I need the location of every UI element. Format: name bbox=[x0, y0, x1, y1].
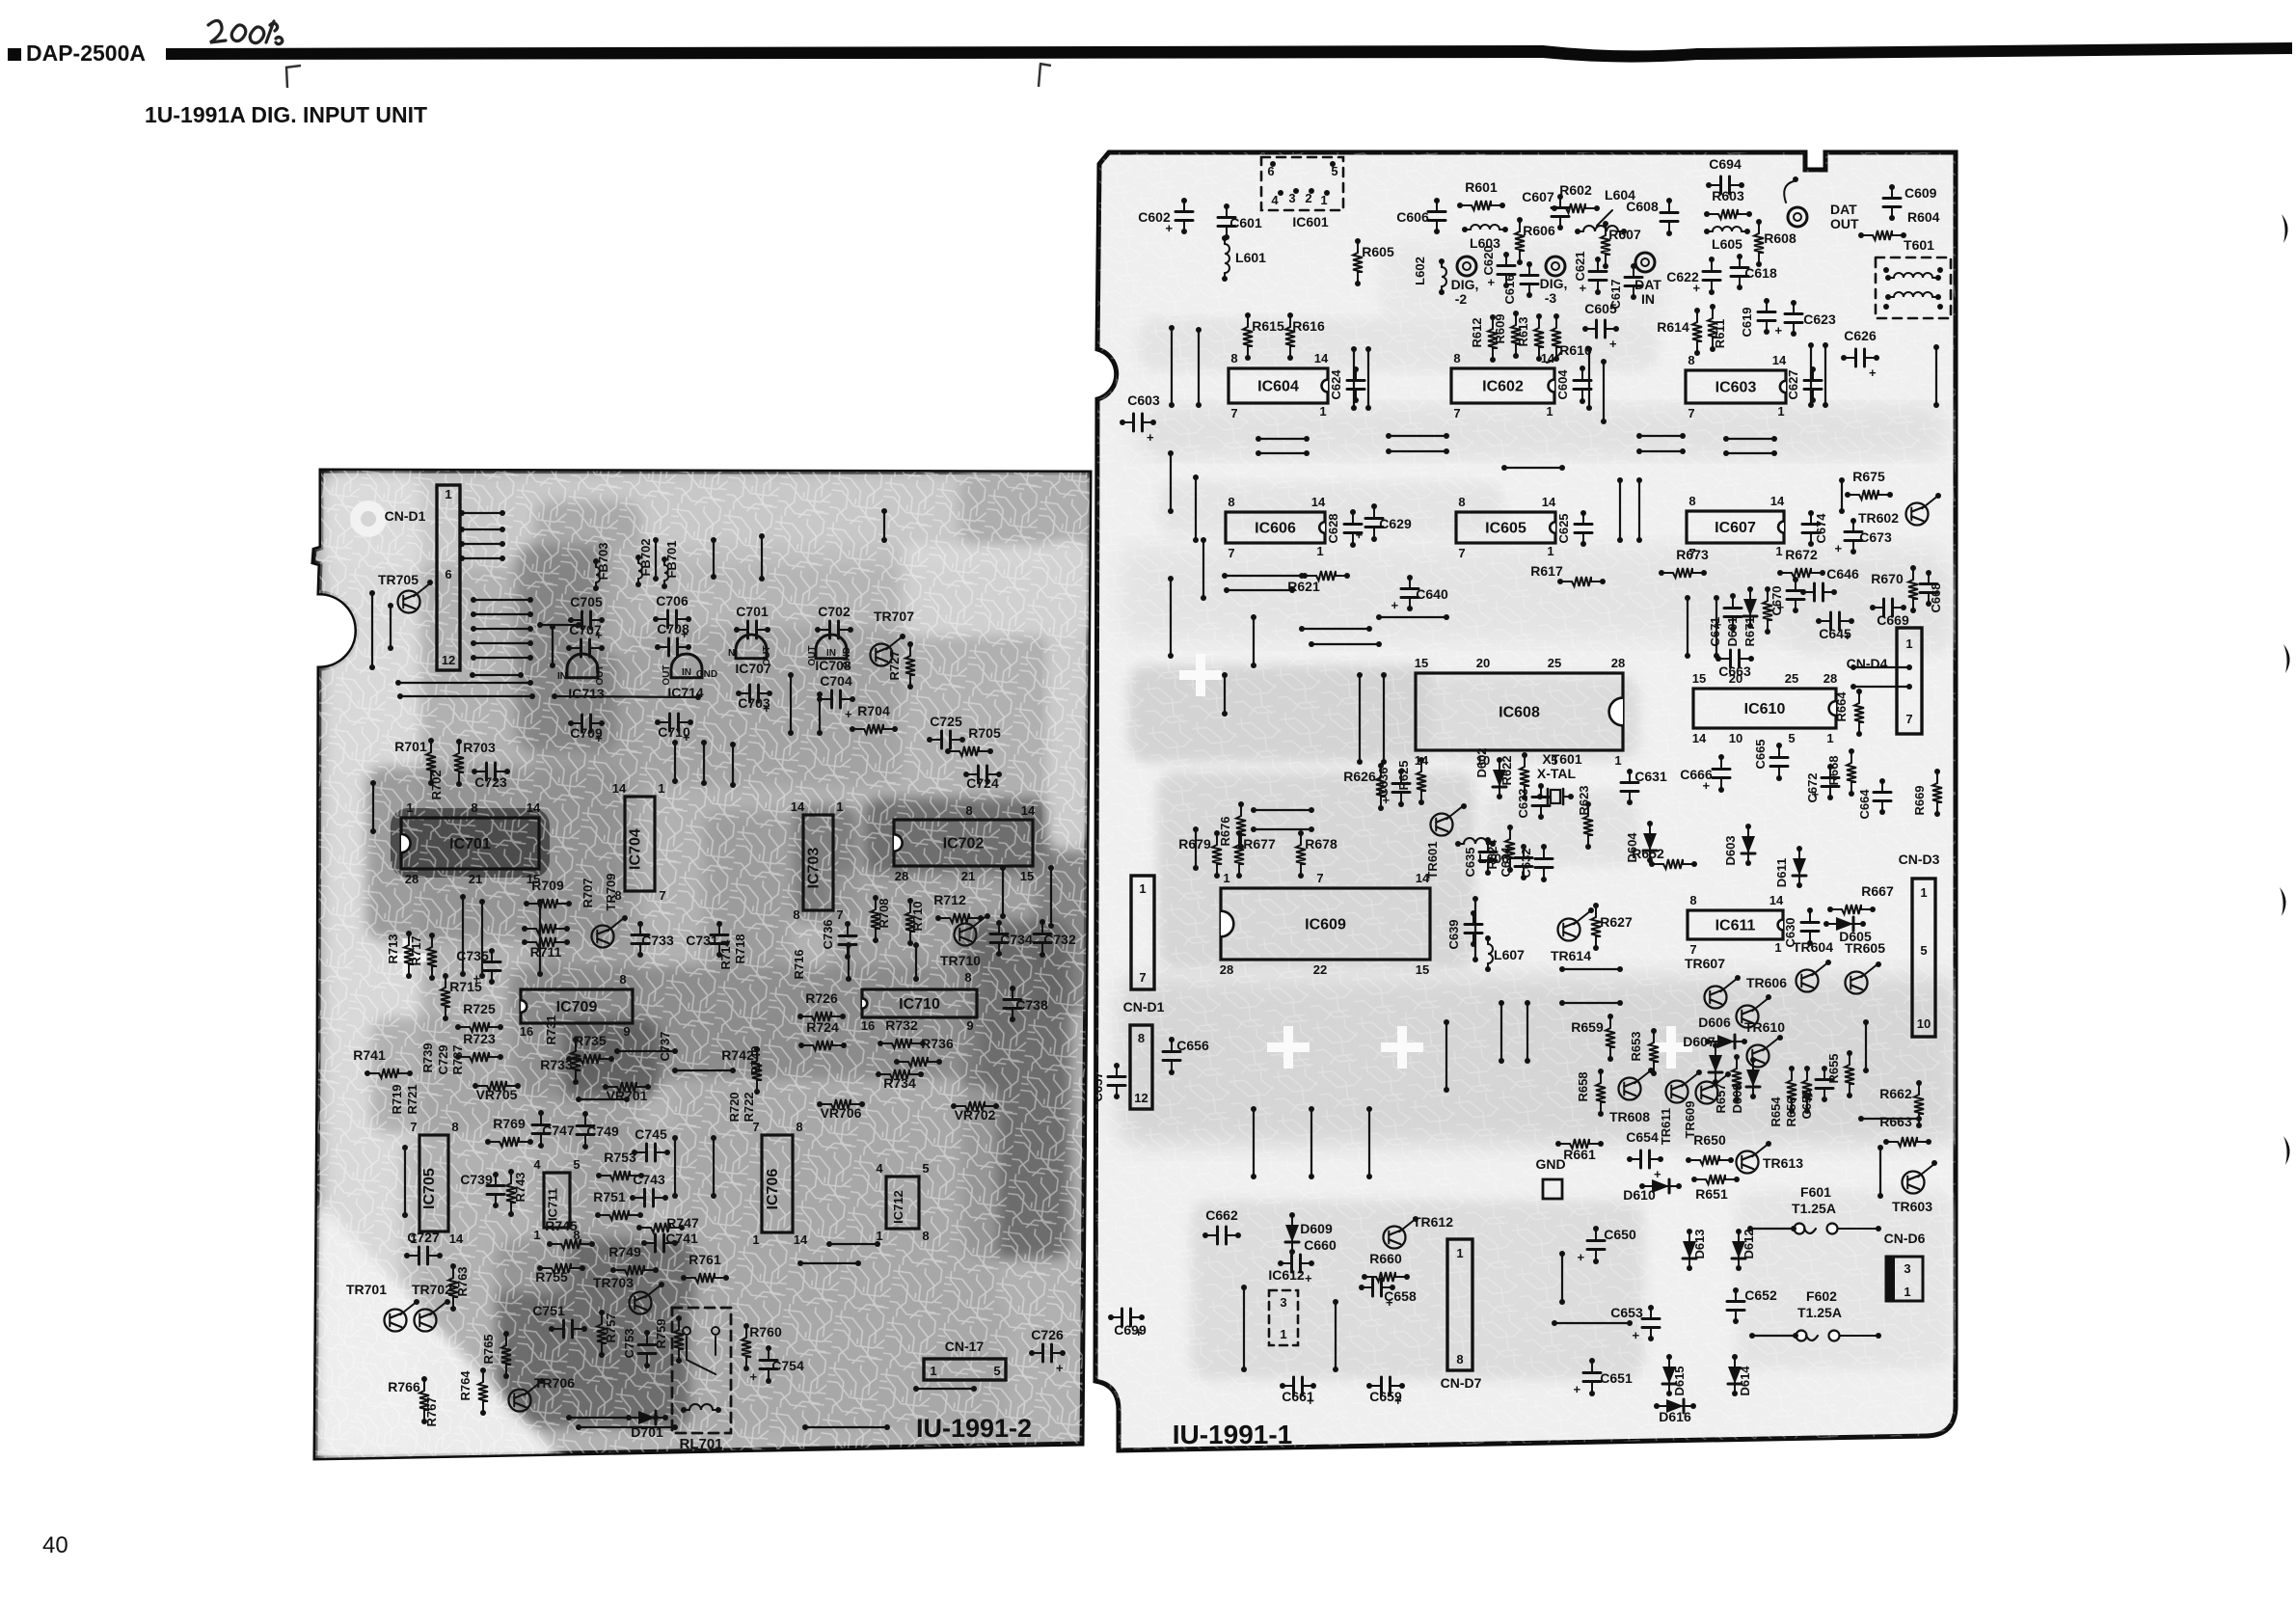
svg-text:+: + bbox=[1386, 1295, 1393, 1310]
svg-text:R709: R709 bbox=[531, 878, 564, 893]
IC IC709 bbox=[521, 989, 633, 1023]
svg-text:14: 14 bbox=[1542, 495, 1556, 509]
svg-text:R656: R656 bbox=[1784, 1096, 1798, 1126]
svg-text:TR605: TR605 bbox=[1845, 940, 1885, 956]
svg-text:40: 40 bbox=[42, 1532, 68, 1558]
wire bbox=[1169, 325, 1175, 408]
svg-text:1: 1 bbox=[1777, 404, 1784, 419]
svg-text:R703: R703 bbox=[463, 740, 496, 755]
handwritten 200% annotation bbox=[208, 20, 283, 43]
svg-text:+: + bbox=[1388, 602, 1402, 609]
wire bbox=[1351, 346, 1357, 411]
svg-text:R622: R622 bbox=[1499, 755, 1514, 785]
svg-text:C736: C736 bbox=[821, 919, 835, 949]
svg-text:IC604: IC604 bbox=[1257, 379, 1299, 395]
IC IC605 bbox=[1456, 512, 1555, 543]
svg-text:R725: R725 bbox=[463, 1001, 496, 1016]
svg-text:C606: C606 bbox=[1396, 209, 1429, 225]
svg-text:D603: D603 bbox=[1723, 835, 1738, 865]
svg-text:+: + bbox=[1711, 621, 1725, 629]
svg-text:R726: R726 bbox=[805, 990, 838, 1006]
wire bbox=[1381, 672, 1387, 765]
bus wire B bbox=[397, 693, 535, 699]
svg-text:IC713: IC713 bbox=[568, 686, 605, 701]
wire bbox=[1636, 448, 1686, 454]
svg-text:VR705: VR705 bbox=[476, 1087, 518, 1102]
svg-text:CN-17: CN-17 bbox=[945, 1339, 985, 1354]
svg-text:+: + bbox=[845, 707, 852, 721]
wire bbox=[1366, 1106, 1372, 1179]
svg-text:9: 9 bbox=[623, 1024, 630, 1039]
wire bbox=[537, 622, 581, 628]
svg-text:+: + bbox=[1147, 430, 1154, 445]
IC IC705 bbox=[419, 1135, 448, 1232]
svg-text:C646: C646 bbox=[1826, 566, 1859, 582]
svg-text:TR610: TR610 bbox=[1744, 1019, 1785, 1035]
svg-text:8: 8 bbox=[1456, 1352, 1463, 1367]
svg-text:+: + bbox=[1379, 797, 1393, 804]
wire bbox=[1251, 807, 1314, 813]
wire bbox=[1299, 626, 1372, 632]
wire bbox=[1617, 477, 1623, 543]
svg-text:1: 1 bbox=[1547, 544, 1553, 558]
svg-text:15: 15 bbox=[1415, 656, 1428, 670]
binding mark 3 bbox=[2280, 887, 2286, 916]
wire bbox=[479, 899, 485, 979]
svg-text:14: 14 bbox=[1021, 803, 1036, 818]
svg-text:OUT: OUT bbox=[1830, 216, 1859, 231]
wire bbox=[913, 1386, 977, 1392]
svg-text:R737: R737 bbox=[450, 1044, 465, 1074]
svg-text:R701: R701 bbox=[394, 739, 427, 754]
wire bbox=[576, 1096, 630, 1102]
regulator IC714 bbox=[671, 654, 702, 678]
svg-text:IC611: IC611 bbox=[1715, 918, 1756, 934]
wire bbox=[614, 1048, 678, 1054]
svg-text:OUT: OUT bbox=[807, 645, 818, 665]
svg-text:+: + bbox=[1689, 284, 1704, 292]
svg-text:+: + bbox=[1305, 1271, 1312, 1286]
svg-text:DIG,: DIG, bbox=[1451, 277, 1479, 292]
svg-text:9: 9 bbox=[966, 1018, 973, 1033]
svg-text:R653: R653 bbox=[1629, 1031, 1643, 1061]
svg-text:R603: R603 bbox=[1712, 188, 1744, 203]
svg-text:C654: C654 bbox=[1626, 1129, 1659, 1145]
svg-text:R650: R650 bbox=[1693, 1132, 1726, 1148]
svg-text:R727: R727 bbox=[887, 650, 902, 680]
svg-text:C627: C627 bbox=[1786, 369, 1800, 399]
wire bbox=[797, 1260, 861, 1266]
svg-text:+: + bbox=[1394, 1394, 1402, 1408]
svg-text:1: 1 bbox=[1319, 404, 1326, 419]
svg-text:C726: C726 bbox=[1031, 1327, 1064, 1342]
wire bbox=[1193, 474, 1199, 543]
svg-text:+: + bbox=[1574, 1254, 1588, 1261]
svg-text:R716: R716 bbox=[792, 949, 806, 979]
svg-text:C704: C704 bbox=[820, 673, 852, 689]
svg-text:5: 5 bbox=[922, 1161, 929, 1176]
svg-text:TR703: TR703 bbox=[593, 1275, 634, 1290]
jack DIG-3 bbox=[1546, 257, 1565, 276]
svg-text:C662: C662 bbox=[1205, 1207, 1238, 1223]
wire bbox=[1251, 1106, 1256, 1179]
IC IC702 bbox=[894, 820, 1033, 866]
svg-text:14: 14 bbox=[1541, 351, 1555, 365]
svg-text:C623: C623 bbox=[1803, 311, 1836, 327]
svg-text:TR604: TR604 bbox=[1793, 939, 1833, 955]
svg-text:+: + bbox=[1570, 1386, 1584, 1394]
svg-text:7: 7 bbox=[1453, 406, 1460, 420]
svg-text:FB703: FB703 bbox=[596, 542, 610, 580]
svg-text:TR606: TR606 bbox=[1746, 975, 1787, 990]
IC IC601 (dashed) bbox=[1261, 157, 1343, 210]
svg-text:5: 5 bbox=[993, 1364, 1000, 1378]
svg-text:C628: C628 bbox=[1326, 513, 1340, 543]
svg-text:IC602: IC602 bbox=[1482, 379, 1524, 395]
wire bbox=[388, 603, 393, 651]
svg-text:L601: L601 bbox=[1235, 250, 1266, 265]
svg-text:7: 7 bbox=[1689, 942, 1696, 957]
svg-text:L603: L603 bbox=[1470, 235, 1500, 251]
svg-text:OUT: OUT bbox=[595, 664, 606, 685]
svg-text:C751: C751 bbox=[532, 1303, 565, 1318]
svg-text:14: 14 bbox=[1311, 495, 1326, 509]
svg-text:R732: R732 bbox=[885, 1017, 918, 1033]
svg-text:R705: R705 bbox=[968, 725, 1001, 741]
svg-text:14: 14 bbox=[1772, 353, 1787, 367]
svg-text:C608: C608 bbox=[1626, 199, 1659, 214]
svg-text:D607: D607 bbox=[1683, 1034, 1715, 1049]
svg-text:R625: R625 bbox=[1396, 760, 1411, 790]
wire bbox=[1333, 1299, 1338, 1372]
svg-text:GND: GND bbox=[1535, 1156, 1565, 1172]
binding mark 2 bbox=[2283, 644, 2290, 673]
connector CN-D1 (left board) bbox=[437, 485, 460, 670]
svg-text:R719: R719 bbox=[390, 1084, 404, 1114]
wire bbox=[788, 672, 794, 736]
svg-text:RL701: RL701 bbox=[679, 1436, 722, 1452]
wire bbox=[1444, 1019, 1449, 1093]
svg-text:C626: C626 bbox=[1844, 328, 1877, 343]
svg-text:L602: L602 bbox=[1413, 257, 1427, 285]
svg-text:R678: R678 bbox=[1305, 836, 1337, 852]
wire bbox=[1251, 614, 1256, 668]
svg-text:IC701: IC701 bbox=[449, 836, 491, 853]
svg-text:R661: R661 bbox=[1563, 1147, 1596, 1162]
svg-text:R713: R713 bbox=[386, 934, 400, 963]
IC IC610 bbox=[1693, 689, 1836, 728]
jack DAT IN bbox=[1635, 253, 1655, 272]
ferrite bead FB703 bbox=[593, 558, 600, 591]
wire bbox=[1559, 1251, 1565, 1305]
binding mark 4 bbox=[2283, 1136, 2290, 1165]
svg-text:+: + bbox=[1802, 1093, 1817, 1100]
svg-text:C650: C650 bbox=[1604, 1227, 1636, 1242]
svg-text:TR602: TR602 bbox=[1858, 510, 1899, 526]
CN-D1 wire row 5 bbox=[471, 597, 533, 603]
stray pen mark left bbox=[285, 66, 301, 88]
svg-text:C666: C666 bbox=[1680, 767, 1713, 782]
svg-text:C653: C653 bbox=[1610, 1305, 1643, 1320]
svg-text:8: 8 bbox=[793, 907, 799, 922]
svg-text:7: 7 bbox=[1458, 546, 1465, 560]
svg-text:+: + bbox=[1135, 1325, 1143, 1340]
svg-text:1: 1 bbox=[1920, 885, 1927, 900]
svg-text:IC705: IC705 bbox=[421, 1168, 438, 1209]
svg-text:8: 8 bbox=[1230, 351, 1237, 365]
svg-text:+: + bbox=[1162, 225, 1176, 232]
svg-text:R652: R652 bbox=[1632, 846, 1664, 861]
svg-text:22: 22 bbox=[1313, 962, 1327, 977]
svg-text:12: 12 bbox=[442, 653, 455, 667]
svg-text:IN: IN bbox=[1641, 291, 1655, 307]
bus wire C bbox=[552, 693, 701, 700]
CN-D1 wire row 2 bbox=[459, 527, 505, 532]
svg-text:12: 12 bbox=[1134, 1091, 1148, 1105]
svg-text:16: 16 bbox=[861, 1018, 875, 1033]
svg-text:IC704: IC704 bbox=[628, 828, 644, 870]
svg-text:25: 25 bbox=[1785, 671, 1798, 686]
CN-D1 wire row 1 bbox=[459, 510, 505, 516]
stray pen mark right bbox=[1039, 64, 1051, 87]
svg-text:R721: R721 bbox=[405, 1084, 419, 1114]
wire bbox=[1472, 896, 1478, 962]
svg-text:28: 28 bbox=[405, 872, 419, 886]
svg-text:C622: C622 bbox=[1666, 269, 1699, 284]
ferrite bead FB702 bbox=[635, 555, 642, 587]
svg-text:1: 1 bbox=[1904, 1285, 1910, 1299]
svg-text:R613: R613 bbox=[1516, 316, 1530, 346]
svg-text:R720: R720 bbox=[727, 1092, 742, 1122]
svg-text:IC606: IC606 bbox=[1255, 521, 1296, 537]
svg-text:+: + bbox=[1699, 782, 1714, 790]
svg-text:+: + bbox=[1629, 1332, 1643, 1340]
svg-text:OUT: OUT bbox=[762, 645, 772, 665]
svg-text:C636: C636 bbox=[1376, 767, 1391, 797]
svg-text:FB701: FB701 bbox=[664, 540, 679, 578]
svg-text:R657: R657 bbox=[1714, 1083, 1728, 1113]
wire bbox=[402, 1145, 408, 1218]
wire bbox=[1309, 641, 1382, 647]
svg-text:6: 6 bbox=[445, 567, 451, 582]
svg-text:7: 7 bbox=[1228, 546, 1234, 560]
svg-text:14: 14 bbox=[612, 781, 627, 796]
svg-text:IC603: IC603 bbox=[1715, 380, 1757, 396]
svg-text:FB702: FB702 bbox=[638, 538, 653, 576]
svg-text:R604: R604 bbox=[1907, 209, 1940, 225]
wire bbox=[1636, 433, 1686, 439]
header rule bar bbox=[166, 42, 2292, 63]
right board PCB outline IU-1991-1 bbox=[1095, 152, 1956, 1450]
svg-text:R662: R662 bbox=[1879, 1086, 1912, 1101]
wire bbox=[730, 742, 736, 788]
svg-text:R733: R733 bbox=[540, 1057, 573, 1072]
svg-text:8: 8 bbox=[1458, 495, 1465, 509]
IC IC604 bbox=[1229, 368, 1328, 403]
wire bbox=[1858, 1116, 1922, 1122]
svg-text:R759: R759 bbox=[654, 1318, 668, 1348]
svg-text:15: 15 bbox=[1416, 962, 1429, 977]
svg-text:C609: C609 bbox=[1904, 185, 1937, 201]
svg-text:VR702: VR702 bbox=[955, 1107, 996, 1123]
svg-text:IC702: IC702 bbox=[943, 836, 985, 853]
svg-text:1: 1 bbox=[1774, 940, 1781, 955]
svg-text:T1.25A: T1.25A bbox=[1792, 1201, 1836, 1216]
svg-text:7: 7 bbox=[1905, 712, 1912, 726]
wire bbox=[1747, 1226, 1796, 1232]
svg-text:-2: -2 bbox=[1455, 291, 1468, 307]
svg-text:C727: C727 bbox=[407, 1230, 440, 1245]
svg-text:C708: C708 bbox=[657, 621, 689, 636]
svg-text:R723: R723 bbox=[463, 1031, 496, 1046]
svg-text:+: + bbox=[1307, 1394, 1314, 1408]
svg-text:R751: R751 bbox=[593, 1189, 626, 1204]
svg-text:+: + bbox=[1484, 279, 1499, 286]
wire bbox=[1850, 664, 1912, 670]
CN-D1 wire row 4 bbox=[459, 555, 505, 561]
wire bbox=[1636, 477, 1642, 543]
svg-text:TR607: TR607 bbox=[1685, 956, 1725, 971]
wire bbox=[1749, 1333, 1798, 1339]
svg-text:R736: R736 bbox=[921, 1036, 954, 1051]
wire bbox=[672, 740, 678, 784]
wire bbox=[1525, 1000, 1530, 1064]
svg-text:TR701: TR701 bbox=[346, 1282, 387, 1297]
wire bbox=[576, 1424, 678, 1430]
svg-text:1: 1 bbox=[445, 487, 451, 501]
svg-text:14: 14 bbox=[1416, 871, 1430, 885]
svg-text:R714: R714 bbox=[718, 939, 733, 970]
IC IC712 bbox=[886, 1177, 919, 1229]
svg-text:21: 21 bbox=[961, 869, 975, 883]
wire bbox=[1241, 1285, 1247, 1372]
svg-text:C706: C706 bbox=[656, 593, 689, 609]
svg-text:IC711: IC711 bbox=[546, 1188, 560, 1221]
svg-text:8: 8 bbox=[1688, 353, 1694, 367]
svg-text:1: 1 bbox=[533, 1228, 540, 1242]
svg-text:IC608: IC608 bbox=[1499, 705, 1540, 721]
svg-text:14: 14 bbox=[1769, 893, 1784, 907]
svg-text:TR612: TR612 bbox=[1413, 1214, 1453, 1230]
svg-text:20: 20 bbox=[1476, 656, 1490, 670]
svg-text:15: 15 bbox=[1692, 671, 1706, 686]
svg-text:+: + bbox=[1773, 604, 1788, 611]
wire bbox=[846, 942, 851, 982]
svg-text:R672: R672 bbox=[1785, 547, 1818, 562]
CN-D1 wire row 9 bbox=[471, 655, 533, 661]
wire bbox=[1823, 342, 1828, 408]
IC IC611 bbox=[1688, 910, 1783, 939]
svg-text:R724: R724 bbox=[806, 1019, 839, 1035]
svg-text:R671: R671 bbox=[1742, 616, 1757, 646]
IC IC607 bbox=[1687, 511, 1784, 543]
svg-text:D611: D611 bbox=[1774, 858, 1789, 887]
svg-text:C656: C656 bbox=[1176, 1038, 1209, 1053]
svg-text:C725: C725 bbox=[930, 714, 962, 729]
svg-text:C633: C633 bbox=[1516, 788, 1530, 818]
svg-text:F602: F602 bbox=[1806, 1288, 1837, 1304]
svg-text:L606: L606 bbox=[1478, 851, 1509, 866]
svg-text:+: + bbox=[746, 1373, 761, 1381]
wire bbox=[711, 1135, 716, 1199]
wire bbox=[1222, 573, 1305, 579]
connector CN-D7 bbox=[1447, 1239, 1472, 1370]
wire bbox=[1933, 344, 1939, 408]
svg-text:+: + bbox=[1831, 545, 1846, 553]
svg-text:XT601: XT601 bbox=[1542, 751, 1581, 767]
svg-text:C665: C665 bbox=[1753, 739, 1768, 769]
svg-text:+: + bbox=[1869, 365, 1877, 380]
wire bbox=[1601, 359, 1607, 424]
wire bbox=[1256, 450, 1310, 456]
svg-text:D601: D601 bbox=[1725, 616, 1740, 646]
wire bbox=[1499, 1000, 1504, 1064]
wire bbox=[672, 1068, 736, 1073]
CN-D1 wire row 8 bbox=[471, 640, 533, 646]
svg-text:1: 1 bbox=[836, 799, 843, 814]
wire bbox=[1309, 1106, 1314, 1179]
IC IC609 bbox=[1221, 888, 1430, 960]
svg-text:+: + bbox=[683, 730, 690, 744]
svg-text:7: 7 bbox=[752, 1120, 759, 1134]
wire bbox=[913, 942, 919, 982]
svg-text:7: 7 bbox=[410, 1120, 417, 1134]
IC IC703 bbox=[803, 815, 833, 910]
svg-text:+: + bbox=[1576, 284, 1590, 292]
svg-text:CN-D6: CN-D6 bbox=[1884, 1231, 1926, 1246]
svg-text:20: 20 bbox=[1729, 671, 1742, 686]
svg-text:R658: R658 bbox=[1576, 1071, 1590, 1101]
wire bbox=[1168, 450, 1174, 514]
wire bbox=[881, 508, 887, 543]
svg-text:T1.25A: T1.25A bbox=[1797, 1305, 1842, 1320]
svg-text:8: 8 bbox=[965, 803, 972, 818]
svg-text:TR710: TR710 bbox=[940, 953, 981, 968]
svg-text:T601: T601 bbox=[1904, 237, 1934, 253]
svg-text:CN-D7: CN-D7 bbox=[1441, 1375, 1482, 1391]
svg-text:D609: D609 bbox=[1300, 1221, 1333, 1236]
svg-text:R717: R717 bbox=[409, 935, 423, 965]
svg-text:IC710: IC710 bbox=[899, 996, 940, 1013]
svg-text:C743: C743 bbox=[633, 1172, 665, 1187]
wire bbox=[759, 533, 765, 582]
svg-text:CN-D1: CN-D1 bbox=[385, 508, 426, 524]
wire bbox=[1714, 595, 1719, 659]
svg-text:IC605: IC605 bbox=[1485, 521, 1526, 537]
svg-text:OUT: OUT bbox=[662, 664, 672, 685]
svg-text:L605: L605 bbox=[1712, 236, 1742, 252]
svg-text:+: + bbox=[1056, 1361, 1064, 1375]
wire bbox=[470, 672, 524, 678]
svg-text:IC703: IC703 bbox=[806, 848, 823, 889]
svg-text:14: 14 bbox=[791, 799, 805, 814]
svg-text:R612: R612 bbox=[1470, 317, 1484, 347]
svg-text:D608: D608 bbox=[1730, 1083, 1744, 1113]
svg-text:X-TAL: X-TAL bbox=[1537, 766, 1577, 781]
svg-text:1: 1 bbox=[1546, 404, 1553, 419]
svg-text:C724: C724 bbox=[966, 775, 999, 791]
svg-text:R626: R626 bbox=[1343, 769, 1376, 784]
svg-text:IC714: IC714 bbox=[667, 685, 704, 700]
svg-text:R605: R605 bbox=[1362, 244, 1394, 259]
svg-text:R673: R673 bbox=[1676, 547, 1709, 562]
svg-text:TR707: TR707 bbox=[874, 609, 914, 624]
svg-text:TR603: TR603 bbox=[1892, 1199, 1932, 1214]
wire bbox=[817, 691, 823, 736]
svg-text:DIG,: DIG, bbox=[1540, 276, 1568, 291]
svg-text:+: + bbox=[1609, 337, 1617, 351]
svg-text:C702: C702 bbox=[818, 604, 851, 619]
